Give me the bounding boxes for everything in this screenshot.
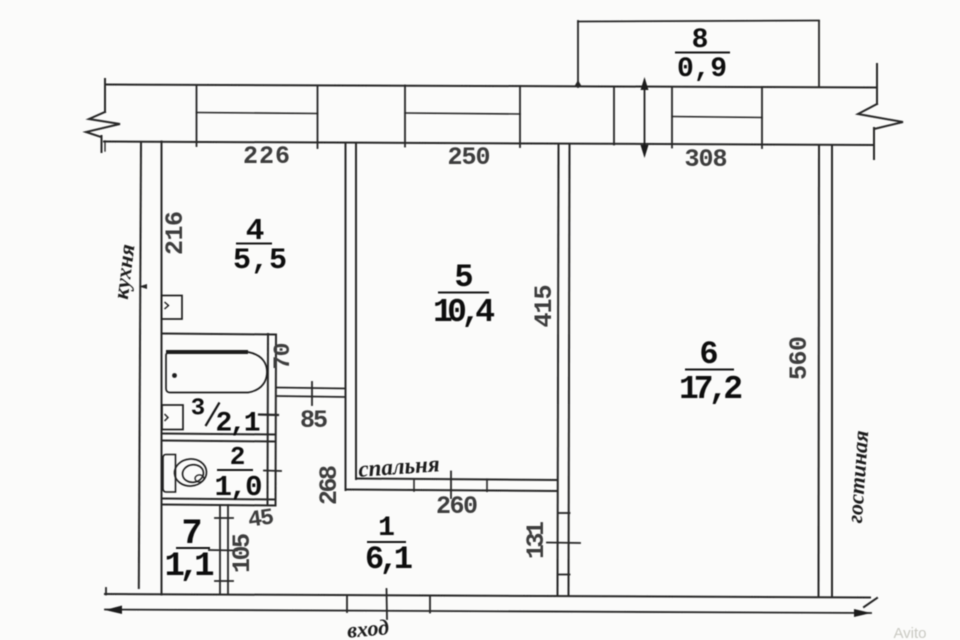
- balcony left wall: [577, 21, 579, 87]
- kitchen window jamb left: [196, 85, 198, 146]
- toilet: [163, 455, 207, 493]
- room7 door wall right line: [227, 505, 229, 595]
- wall break left vertical: [104, 79, 106, 112]
- left inner wall line: [161, 142, 163, 595]
- wc top wall lower line: [162, 441, 276, 442]
- entry door tick left: [346, 596, 348, 612]
- wc right wall dim tick: [264, 470, 281, 473]
- dim 85 end tick: [259, 413, 278, 416]
- svg-text:415: 415: [530, 285, 559, 328]
- svg-text:85: 85: [300, 406, 328, 435]
- room6 right wall inner line: [818, 145, 821, 597]
- wall break right zigzag: [858, 104, 903, 129]
- bottom dimension line: [105, 610, 871, 614]
- svg-text:0,9: 0,9: [677, 54, 727, 85]
- svg-text:1,1: 1,1: [165, 548, 215, 586]
- svg-text:3: 3: [191, 396, 205, 423]
- room6 window jamb left: [671, 87, 673, 148]
- svg-text:6: 6: [699, 336, 718, 373]
- svg-text:308: 308: [685, 145, 728, 174]
- room 2 fraction line: [217, 469, 253, 471]
- balcony door swing arrow: [641, 77, 649, 158]
- svg-text:70: 70: [270, 343, 296, 370]
- room5 bottom wall tick center: [450, 472, 452, 499]
- wall break right lower stub: [873, 128, 875, 159]
- svg-text:1,0: 1,0: [215, 471, 263, 504]
- wc top wall upper line: [162, 434, 276, 435]
- room 5 fraction line: [438, 292, 489, 294]
- bathtub drain: [172, 373, 177, 378]
- svg-text:131: 131: [522, 521, 551, 559]
- svg-text:216: 216: [161, 211, 190, 255]
- bottom outer wall top line: [105, 594, 870, 598]
- room6 window sill: [672, 117, 762, 118]
- svg-text:5: 5: [454, 259, 473, 296]
- svg-text:250: 250: [448, 143, 491, 172]
- svg-text:226: 226: [243, 142, 290, 171]
- room5 bottom wall tick left: [413, 479, 415, 491]
- room7 door tick lower: [215, 580, 233, 582]
- wc bottom wall upper line: [162, 499, 276, 500]
- room 4 fraction line: [236, 243, 272, 245]
- room6 window jamb right: [761, 87, 763, 148]
- tick below left end: [104, 141, 106, 151]
- outer wall top line: [105, 85, 877, 88]
- svg-text:105: 105: [228, 533, 257, 573]
- bottom wall left hook: [105, 588, 107, 595]
- svg-text:45: 45: [246, 504, 275, 533]
- room1 room6 wall right line: [569, 144, 570, 596]
- svg-text:5,5: 5,5: [233, 244, 287, 278]
- room1 room6 wall tick middle: [547, 542, 580, 545]
- kitchen vent box: [162, 296, 183, 320]
- corridor lintel top line: [276, 388, 346, 389]
- entry door tick middle: [386, 589, 389, 619]
- svg-text:кухня: кухня: [108, 243, 140, 301]
- balcony right wall: [818, 21, 820, 87]
- svg-text:гостиная: гостиная: [842, 430, 873, 524]
- svg-text:8: 8: [692, 25, 709, 56]
- room5 window jamb left: [404, 86, 406, 147]
- svg-text:268: 268: [315, 465, 344, 505]
- corridor lintel bottom line: [276, 396, 346, 397]
- bottom dim arrow right: [854, 609, 871, 617]
- kitchen room5 wall right line: [355, 143, 357, 479]
- outer wall top inner line: [104, 142, 873, 146]
- room6 right wall outer line: [831, 145, 833, 597]
- entry door tick right: [429, 597, 431, 613]
- svg-text:10,4: 10,4: [433, 294, 495, 331]
- room5 bottom wall inner line: [356, 479, 558, 481]
- room 7 fraction line: [176, 547, 210, 549]
- room5 bottom wall tick right: [486, 479, 488, 491]
- wc bottom wall lower line: [162, 505, 276, 506]
- bathroom top wall: [162, 334, 277, 335]
- room5 bottom wall outer line: [346, 490, 558, 492]
- left wall small arrow: [139, 284, 147, 289]
- room 8 fraction line: [675, 52, 730, 54]
- svg-text:260: 260: [436, 492, 478, 521]
- bottom dim arrow left: [105, 606, 122, 615]
- room5 window jamb right: [519, 86, 521, 147]
- kitchen window jamb right: [317, 86, 319, 149]
- lintel dimension tick: [311, 382, 313, 405]
- wall break left zigzag: [86, 112, 120, 137]
- bathtub: [166, 352, 267, 393]
- bathroom sink: [162, 405, 183, 430]
- svg-text:вход: вход: [346, 614, 390, 640]
- room5 window sill: [405, 113, 520, 114]
- room 1 fraction line: [367, 541, 406, 543]
- svg-text:2: 2: [230, 442, 246, 472]
- svg-text:6,1: 6,1: [365, 541, 413, 578]
- room1 room6 wall tick upper: [558, 512, 570, 514]
- svg-text:17,2: 17,2: [679, 371, 743, 408]
- svg-text:Avito: Avito: [893, 625, 926, 640]
- wall break left lower stub: [101, 136, 103, 152]
- svg-text:560: 560: [785, 336, 814, 380]
- bottom right diagonal tick: [864, 598, 877, 607]
- kitchen window sill: [197, 113, 318, 114]
- room7 door tick middle: [209, 549, 237, 552]
- svg-text:1: 1: [378, 513, 395, 544]
- svg-text:спальня: спальня: [357, 451, 440, 482]
- svg-text:2,1: 2,1: [216, 409, 261, 440]
- room1 room6 wall left line: [558, 144, 559, 596]
- balcony top wall: [578, 21, 819, 22]
- wall break right vertical: [876, 64, 878, 104]
- balcony door jamb: [613, 87, 615, 145]
- kitchen room5 wall left line: [345, 143, 347, 490]
- left outer side wall: [139, 142, 141, 588]
- room7 door wall left line: [219, 505, 221, 595]
- bathroom wc right wall inner line: [267, 334, 270, 505]
- bathroom wc right wall outer line: [275, 335, 278, 506]
- room 6 fraction line: [685, 369, 734, 371]
- room1 room6 wall tick lower: [558, 574, 570, 576]
- room7 door tick upper: [215, 517, 233, 519]
